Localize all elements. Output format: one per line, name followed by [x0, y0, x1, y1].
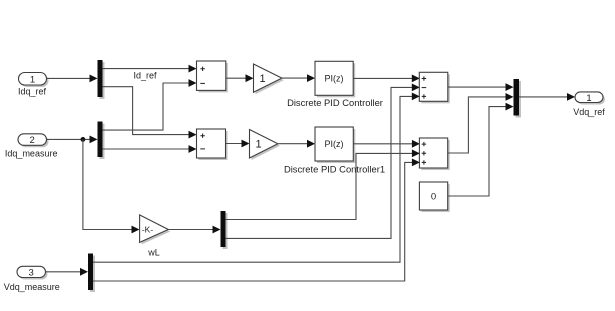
svg-text:Discrete PID Controller1: Discrete PID Controller1 [284, 164, 385, 175]
wire constant 0 to mux M1 in3 [448, 103, 514, 196]
svg-text:Id_ref: Id_ref [133, 70, 157, 80]
input port 2 (Idq_measure) [5, 134, 58, 159]
wire port1 to demux1 [47, 75, 98, 83]
Discrete PID Controller1 U2 [284, 127, 385, 175]
input port 1 (Idq_ref) [18, 73, 49, 97]
svg-text:Idq_measure: Idq_measure [5, 149, 58, 159]
sum S2 [197, 129, 228, 160]
demux D1 [98, 60, 105, 99]
svg-text:Vdq_measure: Vdq_measure [4, 282, 60, 292]
wire demux3 out1 to sum S4 in2 [226, 150, 420, 220]
wire PI(z) U1 to sum S3 in1 [353, 75, 420, 83]
svg-text:Vdq_ref: Vdq_ref [573, 107, 605, 117]
wire junction to gain G3 [83, 139, 140, 233]
wire sum S2 to gain G2 [226, 140, 250, 148]
svg-text:-K-: -K- [142, 225, 154, 235]
wire sum S3 to mux M1 in1 [448, 83, 514, 91]
mux M1 [514, 79, 522, 118]
gain G2 (1) [250, 130, 280, 161]
svg-text:Discrete PID Controller: Discrete PID Controller [287, 97, 383, 108]
wire demux2 out1 to sum S1 in2 [103, 79, 197, 130]
svg-text:1: 1 [586, 93, 591, 104]
gain G1 (1) [254, 64, 284, 94]
wire demux2 out2 to sum S2 in2 [103, 145, 197, 153]
wire demux4 out2 to sum S4 in3 [93, 159, 420, 282]
demux D2 [98, 122, 105, 160]
sum S3 [419, 72, 450, 103]
svg-text:wL: wL [147, 248, 160, 258]
input port 3 (Vdq_measure) [4, 266, 60, 292]
sum S4 [419, 138, 449, 170]
svg-text:1: 1 [30, 74, 35, 85]
output port 1 (Vdq_ref) [573, 92, 605, 117]
wire demux1 out2 to sum S2 in1 [103, 87, 197, 139]
wire gain G2 to PI(z) U2 [278, 140, 315, 148]
wire mux M1 to output port [519, 93, 575, 101]
svg-text:3: 3 [29, 268, 34, 279]
gain G3 (-K- wL) [140, 215, 171, 258]
wire demux3 out2 to sum S3 in2 [226, 84, 420, 239]
sum S1 [197, 61, 228, 92]
svg-text:1: 1 [260, 73, 266, 85]
demux D3 [221, 211, 228, 249]
Discrete PID Controller U1 [287, 61, 383, 108]
svg-text:1: 1 [256, 139, 262, 151]
wire port3 to demux D4 [46, 268, 89, 276]
svg-text:0: 0 [431, 192, 436, 203]
svg-text:Idq_ref: Idq_ref [18, 87, 47, 97]
wire sum S1 to gain G1 [226, 74, 254, 82]
wire gain G3 to demux D3 [168, 226, 220, 234]
wire demux4 out1 to sum S3 in3 [93, 93, 420, 263]
wire demux1 out1 to sum S1 in1, node Id_ref [103, 65, 197, 81]
svg-text:PI(z): PI(z) [325, 139, 344, 149]
wire port2 to demux2 with junction [47, 136, 98, 144]
wire gain G1 to PI(z) U1 [282, 74, 315, 82]
svg-text:2: 2 [30, 135, 35, 146]
wire sum S4 to mux M1 in2 [448, 93, 514, 153]
demux D4 [88, 254, 95, 293]
wire PI(z) U2 to sum S4 in1 [353, 140, 420, 148]
constant 0 [419, 182, 449, 212]
svg-text:PI(z): PI(z) [325, 74, 344, 84]
